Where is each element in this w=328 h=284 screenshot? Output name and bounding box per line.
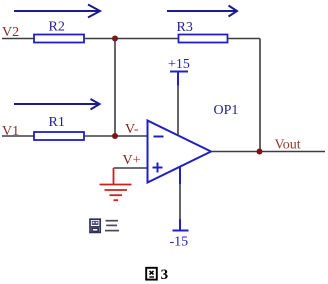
op-amp non-inverting input plus sign bbox=[153, 163, 163, 173]
caption glyph 圖 (drawn) bbox=[90, 219, 100, 232]
svg-text:Vout: Vout bbox=[275, 138, 301, 153]
svg-text:V-: V- bbox=[125, 122, 139, 137]
resistor R1 bbox=[34, 132, 84, 140]
node C output junction dot bbox=[257, 149, 263, 155]
svg-text:-15: -15 bbox=[170, 235, 189, 250]
svg-text:+15: +15 bbox=[168, 57, 190, 72]
wire ground corner to op-amp non-inverting input bbox=[114, 167, 148, 169]
wire feedback vertical down to output bbox=[259, 39, 261, 152]
node B junction dot bbox=[112, 133, 118, 139]
wire R2 to node A and on to R3 bbox=[84, 38, 179, 40]
arrow above R1 (V1 current direction) bbox=[14, 99, 100, 110]
svg-text:3: 3 bbox=[161, 267, 169, 283]
svg-text:OP1: OP1 bbox=[214, 103, 239, 118]
arrow above R3 (feedback current direction) bbox=[167, 6, 237, 17]
caption glyph 图 (drawn) bbox=[146, 268, 157, 280]
caption glyph 三 (drawn) bbox=[105, 221, 119, 231]
svg-text:V+: V+ bbox=[123, 153, 141, 168]
power -15 bar symbol bbox=[173, 230, 189, 232]
wire +15 to op-amp top edge bbox=[177, 86, 179, 136]
svg-text:R1: R1 bbox=[49, 115, 65, 130]
op-amp inverting input minus sign bbox=[154, 136, 164, 138]
wire op-amp output to Vout bbox=[211, 151, 325, 153]
wire R3 to right corner bbox=[228, 38, 261, 40]
wire node A down to node B bbox=[114, 39, 116, 137]
resistor R3 bbox=[179, 35, 228, 43]
svg-text:R3: R3 bbox=[177, 20, 193, 35]
arrow above R2 (V2 current direction) bbox=[14, 5, 100, 18]
wire V1 input to R1 bbox=[2, 135, 34, 137]
ground bbox=[100, 168, 132, 200]
svg-text:R2: R2 bbox=[49, 20, 65, 35]
wire op-amp bottom edge to -15 bbox=[179, 167, 181, 231]
resistor R2 bbox=[34, 35, 84, 43]
wire V2 input to R2 bbox=[2, 38, 34, 40]
op-amp U1 triangle bbox=[148, 121, 212, 183]
wire R1 to node B and op-amp inverting input bbox=[84, 135, 148, 137]
power +15 bar symbol bbox=[170, 72, 188, 86]
node A junction dot bbox=[112, 36, 118, 42]
